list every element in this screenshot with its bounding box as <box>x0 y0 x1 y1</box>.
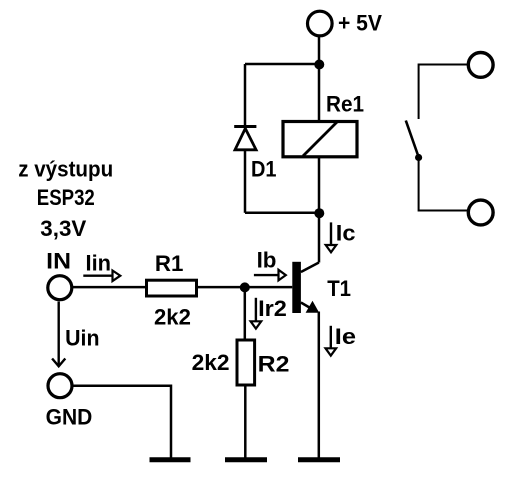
wire relay to collector <box>318 158 321 263</box>
switch S1 pivot <box>415 154 422 161</box>
svg-text:+ 5V: + 5V <box>338 10 382 35</box>
svg-text:3,3V: 3,3V <box>40 216 86 241</box>
current arrow Ir2 <box>251 296 287 329</box>
wire base node to R2 <box>244 287 247 340</box>
svg-text:R2: R2 <box>258 352 290 377</box>
svg-text:z výstupu: z výstupu <box>18 156 113 181</box>
text z výstupu ESP32 3,3V <box>18 156 113 241</box>
voltage arrow Uin <box>52 302 99 367</box>
wire emitter down <box>318 312 321 459</box>
terminal GND <box>46 374 93 430</box>
relay Re1 <box>283 92 364 157</box>
wire base to transistor <box>245 286 292 289</box>
resistor R2 <box>192 340 290 385</box>
switch terminal top <box>468 53 493 78</box>
terminal IN <box>48 276 72 300</box>
node collector junction <box>314 208 324 218</box>
wire diode bottom vertical <box>244 150 247 213</box>
svg-text:GND: GND <box>46 405 93 430</box>
wire bottom horizontal to collector rail <box>245 212 319 215</box>
svg-text:Uin: Uin <box>65 326 99 351</box>
switch S1 wire top <box>419 65 467 120</box>
wire IN to R1 <box>72 286 145 289</box>
wire R1 to base node <box>198 286 245 289</box>
transistor T1 <box>292 262 351 313</box>
switch terminal bottom <box>468 200 493 225</box>
svg-text:R1: R1 <box>155 251 184 276</box>
ground middle <box>225 457 267 462</box>
resistor R1 <box>147 251 197 329</box>
svg-text:2k2: 2k2 <box>192 350 230 375</box>
terminal +5V <box>308 10 383 36</box>
wire GND to ground <box>73 386 172 458</box>
svg-text:Iin: Iin <box>86 250 112 275</box>
current arrow Ic <box>326 220 356 252</box>
ground emitter <box>298 457 340 462</box>
svg-text:Ib: Ib <box>257 248 277 273</box>
svg-text:D1: D1 <box>251 157 277 182</box>
svg-text:Ir2: Ir2 <box>258 296 287 321</box>
current arrow Iin <box>83 250 120 281</box>
node top junction <box>314 60 324 70</box>
svg-text:IN: IN <box>46 249 71 274</box>
ground left <box>150 457 191 462</box>
current arrow Ie <box>326 324 357 355</box>
wire R2 to ground <box>244 385 247 458</box>
svg-text:T1: T1 <box>327 276 351 301</box>
switch S1 wire bottom <box>419 158 467 211</box>
node base junction <box>240 282 250 292</box>
svg-text:2k2: 2k2 <box>154 304 191 329</box>
svg-text:Ic: Ic <box>336 220 356 245</box>
svg-text:Re1: Re1 <box>326 92 364 117</box>
wire +5V to relay <box>318 37 321 121</box>
svg-text:Ie: Ie <box>335 324 356 349</box>
svg-text:ESP32: ESP32 <box>37 185 95 210</box>
current arrow Ib <box>254 248 286 281</box>
switch S1 blade <box>406 121 419 158</box>
wire diode top vertical <box>244 64 247 127</box>
diode D1 <box>234 127 276 182</box>
wire top horizontal to diode <box>245 63 319 66</box>
